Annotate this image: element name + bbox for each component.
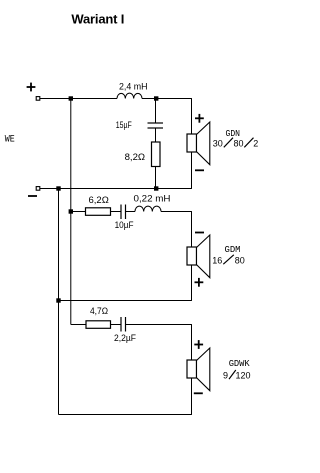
svg-text:4,7Ω: 4,7Ω xyxy=(90,306,108,316)
svg-text:120: 120 xyxy=(236,370,251,380)
svg-text:6,2Ω: 6,2Ω xyxy=(89,195,110,205)
wire minus trunk vertical xyxy=(58,189,60,415)
wire shunt branch lower lead xyxy=(155,167,157,189)
label speaker LS1 rating 30/80/2 xyxy=(213,138,259,149)
svg-text:GDWK: GDWK xyxy=(229,359,251,369)
wire shunt branch middle lead xyxy=(155,128,157,142)
wire shunt branch upper lead xyxy=(155,99,157,124)
resistor R3 4,7 ohm xyxy=(86,321,111,329)
svg-text:GDM: GDM xyxy=(225,245,241,255)
svg-text:2,2µF: 2,2µF xyxy=(114,333,136,343)
speaker LS1 cone xyxy=(197,122,210,165)
terminal - input xyxy=(36,187,40,191)
svg-text:9: 9 xyxy=(223,370,228,380)
wire plus trunk vertical xyxy=(70,99,72,325)
svg-text:16: 16 xyxy=(212,255,222,265)
svg-text:2: 2 xyxy=(253,139,258,149)
node junction dot plus trunk / mid branch xyxy=(69,209,73,213)
svg-text:Wariant I: Wariant I xyxy=(71,12,124,27)
resistor R2 6,2 ohm xyxy=(86,208,111,216)
wire tweeter loop right rail xyxy=(191,325,193,415)
terminal + input xyxy=(36,97,40,101)
plus mark speaker LS2 xyxy=(195,278,204,287)
svg-text:10µF: 10µF xyxy=(115,220,134,230)
node junction dot top wire / plus trunk xyxy=(69,96,73,100)
wire top plus rail xyxy=(40,98,192,100)
label speaker LS3 rating 9/120 xyxy=(223,370,251,380)
svg-text:15µF: 15µF xyxy=(116,120,132,130)
plus mark speaker LS3 xyxy=(194,340,203,349)
speaker LS2 cone xyxy=(197,235,210,278)
minus input polarity mark xyxy=(28,195,37,197)
wire mid branch resistor to capacitor xyxy=(111,211,122,213)
wire mid loop bottom return xyxy=(59,300,192,302)
speaker LS2 driver body xyxy=(187,247,197,265)
resistor R1 8,2 ohm xyxy=(152,142,161,167)
wire mid loop right rail xyxy=(191,212,193,301)
wire tweeter branch lead to resistor xyxy=(71,324,86,326)
speaker LS3 driver body xyxy=(187,360,197,378)
inductor L1 2,4 mH xyxy=(117,93,142,98)
speaker LS3 cone xyxy=(197,348,210,391)
inductor L2 0,22 mH xyxy=(135,206,161,211)
node junction dot minus trunk / mid loop return xyxy=(56,298,60,302)
minus mark speaker LS3 xyxy=(194,392,203,394)
svg-text:2,4 mH: 2,4 mH xyxy=(119,81,148,91)
plus mark speaker LS1 xyxy=(195,114,204,123)
wire top loop right rail xyxy=(191,99,193,189)
wire tweeter branch capacitor to right rail xyxy=(126,324,192,326)
node junction dot minus wire / minus trunk xyxy=(56,186,60,190)
node junction dot top wire / shunt branch xyxy=(154,96,158,100)
wire mid branch lead to resistor xyxy=(71,211,86,213)
svg-text:80: 80 xyxy=(234,139,244,149)
plus input polarity mark xyxy=(27,83,36,92)
wire tweeter branch resistor to capacitor xyxy=(111,324,122,326)
capacitor C2 10uF xyxy=(121,205,126,220)
minus mark speaker LS2 xyxy=(195,232,204,234)
wire bottom return rail xyxy=(59,414,192,416)
svg-text:30: 30 xyxy=(213,139,223,149)
capacitor C3 2,2uF xyxy=(121,317,126,332)
svg-text:8,2Ω: 8,2Ω xyxy=(125,152,146,162)
wire mid branch capacitor to inductor xyxy=(126,211,136,213)
speaker LS1 driver body xyxy=(187,134,197,152)
wire mid branch inductor to right rail xyxy=(161,211,192,213)
capacitor C1 15uF xyxy=(148,123,164,128)
svg-text:80: 80 xyxy=(235,255,245,265)
minus mark speaker LS1 xyxy=(195,169,204,171)
wire minus rail horizontal xyxy=(40,188,192,190)
node junction dot shunt / minus wire xyxy=(154,186,158,190)
svg-text:0,22 mH: 0,22 mH xyxy=(134,194,171,204)
svg-text:WE: WE xyxy=(5,135,15,146)
label speaker LS2 rating 16/80 xyxy=(212,255,245,266)
